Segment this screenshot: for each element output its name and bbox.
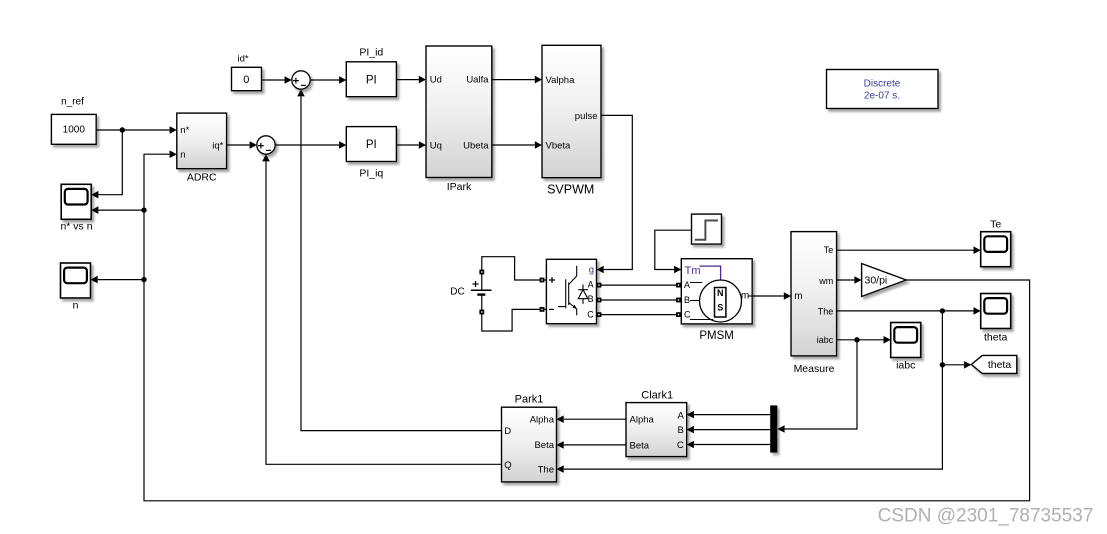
svg-text:iabc: iabc	[896, 360, 915, 372]
svg-text:Clark1: Clark1	[641, 390, 673, 402]
svg-text:30/pi: 30/pi	[865, 275, 888, 287]
port marker inverter A	[597, 283, 602, 288]
wire branch to goto tag theta	[942, 364, 964, 366]
svg-text:Ualfa: Ualfa	[466, 75, 489, 86]
wire Park1 Q feedback to sum iq	[266, 161, 502, 464]
svg-text:A: A	[684, 280, 690, 290]
DC voltage source	[450, 281, 491, 297]
scope n	[61, 263, 91, 312]
wire n_ref to ADRC n*	[96, 129, 169, 131]
wire Measure Te to scope Te	[837, 249, 974, 251]
wire branch to scope n* vs n second input	[98, 209, 144, 211]
svg-text:id*: id*	[237, 54, 248, 65]
svg-text:Measure: Measure	[794, 363, 835, 375]
subsystem ADRC	[177, 113, 227, 183]
svg-text:theta: theta	[988, 359, 1012, 371]
svg-text:iabc: iabc	[817, 335, 834, 345]
wire PMSM m to Measure m	[752, 295, 784, 297]
port marker PMSM B	[676, 298, 681, 303]
port marker DC minus	[479, 310, 484, 315]
svg-text:N: N	[717, 288, 724, 298]
subsystem SVPWM	[542, 45, 601, 196]
svg-text:iq*: iq*	[212, 140, 223, 151]
svg-text:m: m	[741, 290, 749, 301]
port marker DC plus	[479, 270, 484, 275]
svg-text:Te: Te	[824, 245, 834, 255]
port marker inverter plus	[540, 278, 545, 283]
wire branch to scope n	[98, 279, 144, 281]
wire ADRC iq* to sum iq	[227, 144, 250, 146]
wire inverter A to PMSM A	[597, 284, 682, 286]
wire inverter B to PMSM B	[597, 299, 682, 301]
svg-text:1000: 1000	[63, 124, 86, 135]
svg-text:B: B	[684, 295, 690, 305]
port marker PMSM C	[676, 312, 681, 317]
subsystem Clark1	[626, 390, 687, 457]
svg-text:DC: DC	[450, 286, 464, 297]
svg-text:Ubeta: Ubeta	[463, 140, 489, 151]
wire inverter C to PMSM C	[597, 314, 682, 316]
junction theta tag branch	[940, 362, 945, 367]
wire Measure The to scope theta	[837, 310, 974, 312]
svg-text:Alpha: Alpha	[530, 415, 555, 426]
svg-text:PI_id: PI_id	[359, 47, 383, 59]
wire PI_iq to IPark Uq	[396, 144, 418, 146]
wire demux out C to Clark1 C	[694, 444, 770, 446]
junction speed to scope n	[141, 277, 146, 282]
wire branch to scope n* vs n first input	[98, 130, 122, 195]
svg-text:theta: theta	[984, 331, 1008, 343]
subsystem Measure	[791, 232, 837, 375]
port marker PMSM A	[676, 283, 681, 288]
svg-text:PMSM: PMSM	[699, 330, 734, 342]
svg-text:SVPWM: SVPWM	[547, 183, 594, 197]
junction iabc branch	[854, 337, 859, 342]
wire IPark Ualfa to SVPWM Valpha	[492, 79, 535, 81]
svg-text:Alpha: Alpha	[630, 415, 655, 426]
wire DC minus to inverter	[482, 295, 547, 331]
port marker inverter C	[597, 312, 602, 317]
wire demux out A to Clark1 A	[694, 414, 770, 416]
svg-text:pulse: pulse	[575, 111, 598, 122]
svg-text:D: D	[504, 426, 511, 437]
svg-text:IPark: IPark	[447, 181, 472, 193]
svg-text:C: C	[677, 440, 684, 451]
svg-text:0: 0	[243, 74, 249, 86]
demux bar	[770, 405, 777, 452]
wire iabc down to demux input	[785, 340, 857, 429]
svg-text:C: C	[587, 310, 594, 320]
svg-text:CSDN @2301_78735537: CSDN @2301_78735537	[878, 506, 1094, 527]
svg-text:The: The	[818, 306, 834, 316]
sum junction iq (plus minus)	[257, 136, 275, 154]
svg-text:A: A	[677, 410, 684, 421]
port marker inverter minus	[540, 307, 545, 312]
svg-text:Vbeta: Vbeta	[546, 140, 572, 151]
subsystem Park1	[502, 394, 557, 482]
scope theta	[981, 294, 1011, 344]
svg-text:Uq: Uq	[430, 140, 442, 151]
PI controller block PI_iq	[346, 127, 396, 180]
junction n_ref branch	[120, 127, 125, 132]
svg-text:Park1: Park1	[515, 394, 544, 406]
svg-text:The: The	[538, 465, 554, 476]
wire IPark Ubeta to SVPWM Vbeta	[492, 144, 535, 146]
svg-text:n* vs n: n* vs n	[60, 221, 92, 233]
scope iabc	[891, 323, 921, 372]
port marker inverter B	[597, 298, 602, 303]
svg-text:n*: n*	[180, 125, 189, 136]
svg-text:C: C	[684, 309, 691, 319]
junction speed to scope n* vs n	[141, 207, 146, 212]
svg-text:B: B	[677, 425, 683, 436]
svg-text:g: g	[589, 265, 594, 276]
subsystem IPark inverse Park transform	[426, 46, 492, 193]
svg-text:Discrete: Discrete	[864, 79, 901, 90]
svg-text:PI_iq: PI_iq	[359, 168, 383, 180]
goto tag theta	[971, 355, 1017, 373]
svg-text:Valpha: Valpha	[546, 75, 576, 86]
step source block Tm	[692, 214, 722, 244]
svg-text:n: n	[73, 300, 79, 312]
scope n* vs n	[60, 184, 92, 232]
svg-text:PI: PI	[366, 139, 377, 151]
constant block id* value 0	[232, 54, 262, 91]
wire demux out B to Clark1 B	[694, 429, 770, 431]
wire The down to Park1 The input	[564, 311, 943, 469]
gain block 30/pi	[862, 264, 907, 297]
wire speed feedback from gain to ADRC n	[144, 154, 1030, 501]
universal bridge inverter block	[546, 259, 596, 323]
wire DC plus to inverter	[482, 257, 547, 291]
svg-text:Te: Te	[990, 219, 1001, 231]
svg-text:Ud: Ud	[430, 75, 442, 86]
svg-text:Q: Q	[504, 460, 511, 471]
junction The branch	[940, 308, 945, 313]
wire Clark1 Alpha to Park1 Alpha	[564, 418, 626, 420]
wire Clark1 Beta to Park1 Beta	[564, 444, 626, 446]
svg-text:S: S	[717, 302, 723, 312]
wire step Tm to PMSM Tm	[655, 230, 692, 269]
sum junction id (plus minus)	[292, 71, 310, 89]
svg-text:PI: PI	[366, 75, 377, 87]
wire Measure iabc to scope iabc	[837, 339, 884, 341]
svg-text:Tm: Tm	[685, 265, 701, 277]
svg-text:Beta: Beta	[630, 440, 650, 451]
scope Te	[981, 219, 1011, 267]
svg-text:m: m	[794, 291, 802, 302]
PI controller block PI_id	[346, 47, 396, 97]
wire SVPWM pulse to inverter g	[601, 115, 632, 269]
wire sum id to PI_id	[310, 79, 339, 81]
wire sum iq to PI_iq	[275, 144, 339, 146]
constant block n_ref value 1000	[51, 96, 96, 144]
powergui block Discrete 2e-07 s.	[827, 70, 939, 109]
wire PI_id to IPark Ud	[396, 79, 418, 81]
svg-text:Beta: Beta	[534, 440, 554, 451]
wire Measure wm to gain	[837, 279, 855, 281]
svg-text:n: n	[180, 150, 185, 161]
inverter IGBT and diode icon	[558, 266, 588, 316]
svg-text:ADRC: ADRC	[187, 172, 217, 184]
svg-text:wm: wm	[818, 276, 833, 286]
svg-text:A: A	[588, 279, 594, 289]
wire id* constant to sum id	[262, 79, 285, 81]
svg-text:n_ref: n_ref	[61, 96, 84, 107]
svg-text:2e-07 s.: 2e-07 s.	[864, 91, 900, 102]
wire Park1 D feedback to sum id	[301, 96, 502, 430]
PMSM machine block	[681, 259, 752, 342]
